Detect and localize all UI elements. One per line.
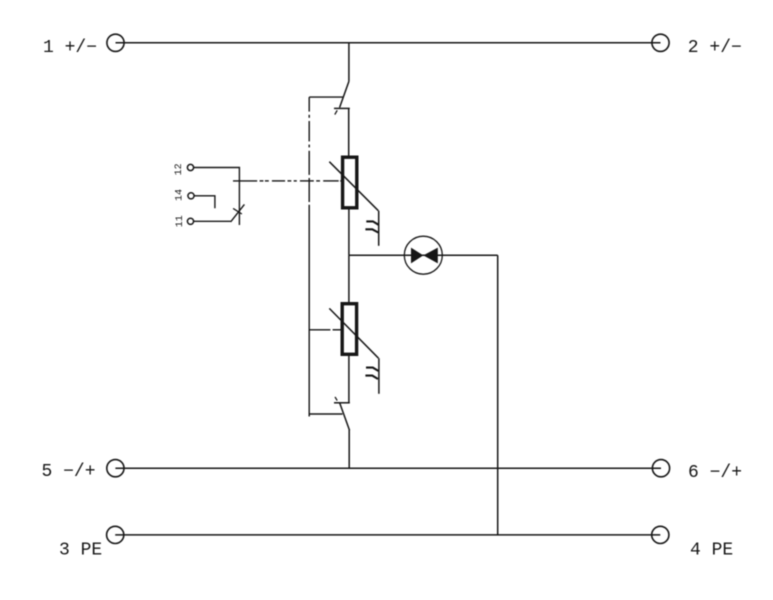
svg-text:1 +/−: 1 +/− <box>43 38 97 58</box>
thermal disconnector pointer RV2 <box>378 358 380 394</box>
wire upper disconnector to varistor RV1 <box>348 108 350 156</box>
svg-text:3 PE: 3 PE <box>59 541 102 561</box>
terminal 6 circle <box>652 460 669 477</box>
module box bottom edge <box>309 413 342 415</box>
gas discharge tube F1 right triangle <box>423 248 438 264</box>
thermal disconnector pointer RV1 <box>378 211 380 246</box>
varistor RV1 body <box>343 157 357 208</box>
disconnector actuator tick (upper) <box>335 110 337 114</box>
wire node A to gas discharge tube F1 <box>349 254 498 256</box>
module box left side (phantom line) <box>308 97 310 416</box>
svg-text:12: 12 <box>174 163 185 175</box>
remote contact terminal 14 circle <box>188 193 194 199</box>
remote contact terminal 12 circle <box>187 164 193 170</box>
disconnector hinge bar (lower) <box>334 402 350 404</box>
disconnector blade (upper) <box>340 81 349 107</box>
wire terminal 14 stub <box>194 196 215 209</box>
wire node A to varistor RV2 <box>348 255 350 302</box>
mechanical linkage dash-dot to RV2 <box>310 329 342 331</box>
terminal 1 circle <box>107 34 124 51</box>
terminal 5 circle <box>107 460 124 477</box>
wire top rail 1-2 <box>116 42 661 44</box>
wire gas discharge tube to PE rail <box>497 255 499 535</box>
varistor RV2 body <box>342 304 356 355</box>
terminal 2 circle <box>652 34 669 51</box>
wire terminal 12 to contact <box>194 168 240 226</box>
wire between varistor RV1 and node A <box>348 209 350 255</box>
thermal disconnector solder mark RV1 <box>365 221 378 232</box>
disconnector hinge bar (upper) <box>334 107 350 109</box>
svg-text:5 −/+: 5 −/+ <box>42 462 96 482</box>
remote contact terminal 11 circle <box>187 218 193 224</box>
varistor RV1 diagonal arrow <box>329 162 378 211</box>
gas discharge tube F1 circle <box>404 236 442 274</box>
disconnector blade (lower) <box>340 403 350 430</box>
gas discharge tube F1 left triangle <box>411 248 423 264</box>
mechanical linkage dash-dot to RV1 <box>233 180 342 182</box>
terminal 4 circle <box>652 526 669 543</box>
terminal 3 circle <box>107 526 124 543</box>
svg-text:11: 11 <box>175 215 186 227</box>
svg-text:4 PE: 4 PE <box>690 541 733 561</box>
wire drop from top rail to upper disconnector <box>348 43 350 82</box>
disconnector actuator tick (lower) <box>335 397 337 401</box>
varistor RV2 diagonal arrow <box>329 308 378 358</box>
wire varistor RV2 to lower disconnector <box>348 356 350 403</box>
svg-text:6 −/+: 6 −/+ <box>688 463 742 483</box>
wire lower disconnector to rail 5-6 <box>348 430 350 469</box>
thermal disconnector solder mark RV2 <box>365 368 378 379</box>
svg-text:2 +/−: 2 +/− <box>688 38 742 58</box>
wire terminal 11 to contact <box>194 220 231 222</box>
remote contact blade tick <box>233 208 242 214</box>
remote contact blade 11-12 <box>231 204 245 222</box>
svg-text:14: 14 <box>174 189 185 201</box>
module box top edge <box>309 96 343 98</box>
wire PE rail 3-4 <box>115 534 660 536</box>
wire rail 5-6 <box>115 467 661 469</box>
